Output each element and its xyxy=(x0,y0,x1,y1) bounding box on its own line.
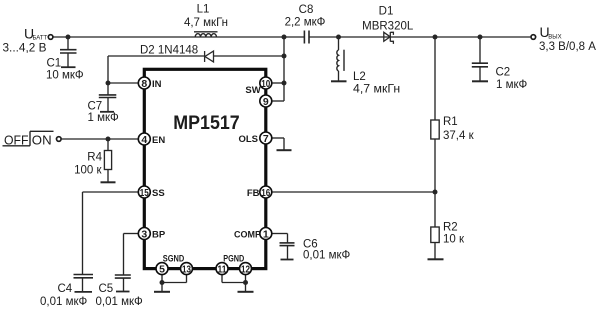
svg-text:9: 9 xyxy=(263,96,269,108)
svg-text:SW: SW xyxy=(245,85,260,96)
svg-text:MBR320L: MBR320L xyxy=(362,21,414,33)
svg-text:10 к: 10 к xyxy=(443,234,465,246)
svg-text:OLS: OLS xyxy=(238,134,258,145)
svg-text:COMP: COMP xyxy=(234,229,262,240)
svg-text:4,7 мкГн: 4,7 мкГн xyxy=(184,17,228,29)
svg-text:10 мкФ: 10 мкФ xyxy=(46,70,84,82)
svg-text:FB: FB xyxy=(247,188,260,199)
svg-text:13: 13 xyxy=(182,264,191,276)
svg-text:8: 8 xyxy=(141,78,147,90)
svg-text:2,2 мкФ: 2,2 мкФ xyxy=(285,17,326,29)
svg-text:0,01 мкФ: 0,01 мкФ xyxy=(96,296,144,308)
svg-text:1: 1 xyxy=(263,228,269,240)
svg-text:7: 7 xyxy=(263,133,269,145)
svg-text:BP: BP xyxy=(152,230,166,241)
svg-text:11: 11 xyxy=(218,264,227,276)
svg-text:R1: R1 xyxy=(443,116,458,128)
svg-text:D1: D1 xyxy=(379,5,394,17)
svg-text:PGND: PGND xyxy=(223,253,244,264)
svg-text:100 к: 100 к xyxy=(74,164,102,176)
svg-text:OFF: OFF xyxy=(4,132,29,147)
svg-text:1 мкФ: 1 мкФ xyxy=(496,79,528,91)
svg-text:0,01 мкФ: 0,01 мкФ xyxy=(303,250,351,262)
svg-text:MP1517: MP1517 xyxy=(173,112,240,134)
svg-text:5: 5 xyxy=(159,264,165,276)
svg-text:15: 15 xyxy=(140,187,149,199)
svg-text:C1: C1 xyxy=(47,58,62,70)
svg-text:R4: R4 xyxy=(87,152,102,164)
svg-text:1 мкФ: 1 мкФ xyxy=(88,112,120,124)
svg-text:EN: EN xyxy=(152,135,165,146)
svg-text:4: 4 xyxy=(141,134,147,146)
svg-text:3...4,2 В: 3...4,2 В xyxy=(3,41,47,55)
svg-text:10: 10 xyxy=(261,78,270,90)
svg-text:16: 16 xyxy=(261,187,270,199)
svg-text:3,3 В/0,8 А: 3,3 В/0,8 А xyxy=(539,41,596,53)
svg-text:L1: L1 xyxy=(197,4,210,16)
svg-text:C8: C8 xyxy=(299,4,314,16)
svg-text:37,4 к: 37,4 к xyxy=(443,130,475,142)
svg-text:C7: C7 xyxy=(88,101,103,113)
svg-text:SS: SS xyxy=(152,188,165,199)
svg-text:C2: C2 xyxy=(496,67,511,79)
svg-text:3: 3 xyxy=(141,228,147,240)
svg-text:C5: C5 xyxy=(99,283,114,295)
svg-text:12: 12 xyxy=(241,264,250,276)
svg-text:4,7 мкГн: 4,7 мкГн xyxy=(353,82,400,96)
svg-text:C4: C4 xyxy=(58,283,73,295)
svg-text:ON: ON xyxy=(32,132,52,147)
svg-text:IN: IN xyxy=(152,79,162,90)
svg-text:SGND: SGND xyxy=(163,253,185,264)
svg-text:0,01 мкФ: 0,01 мкФ xyxy=(40,296,88,308)
svg-text:R2: R2 xyxy=(443,222,458,234)
svg-text:ВЫХ: ВЫХ xyxy=(548,34,561,40)
svg-text:D2 1N4148: D2 1N4148 xyxy=(140,45,198,57)
